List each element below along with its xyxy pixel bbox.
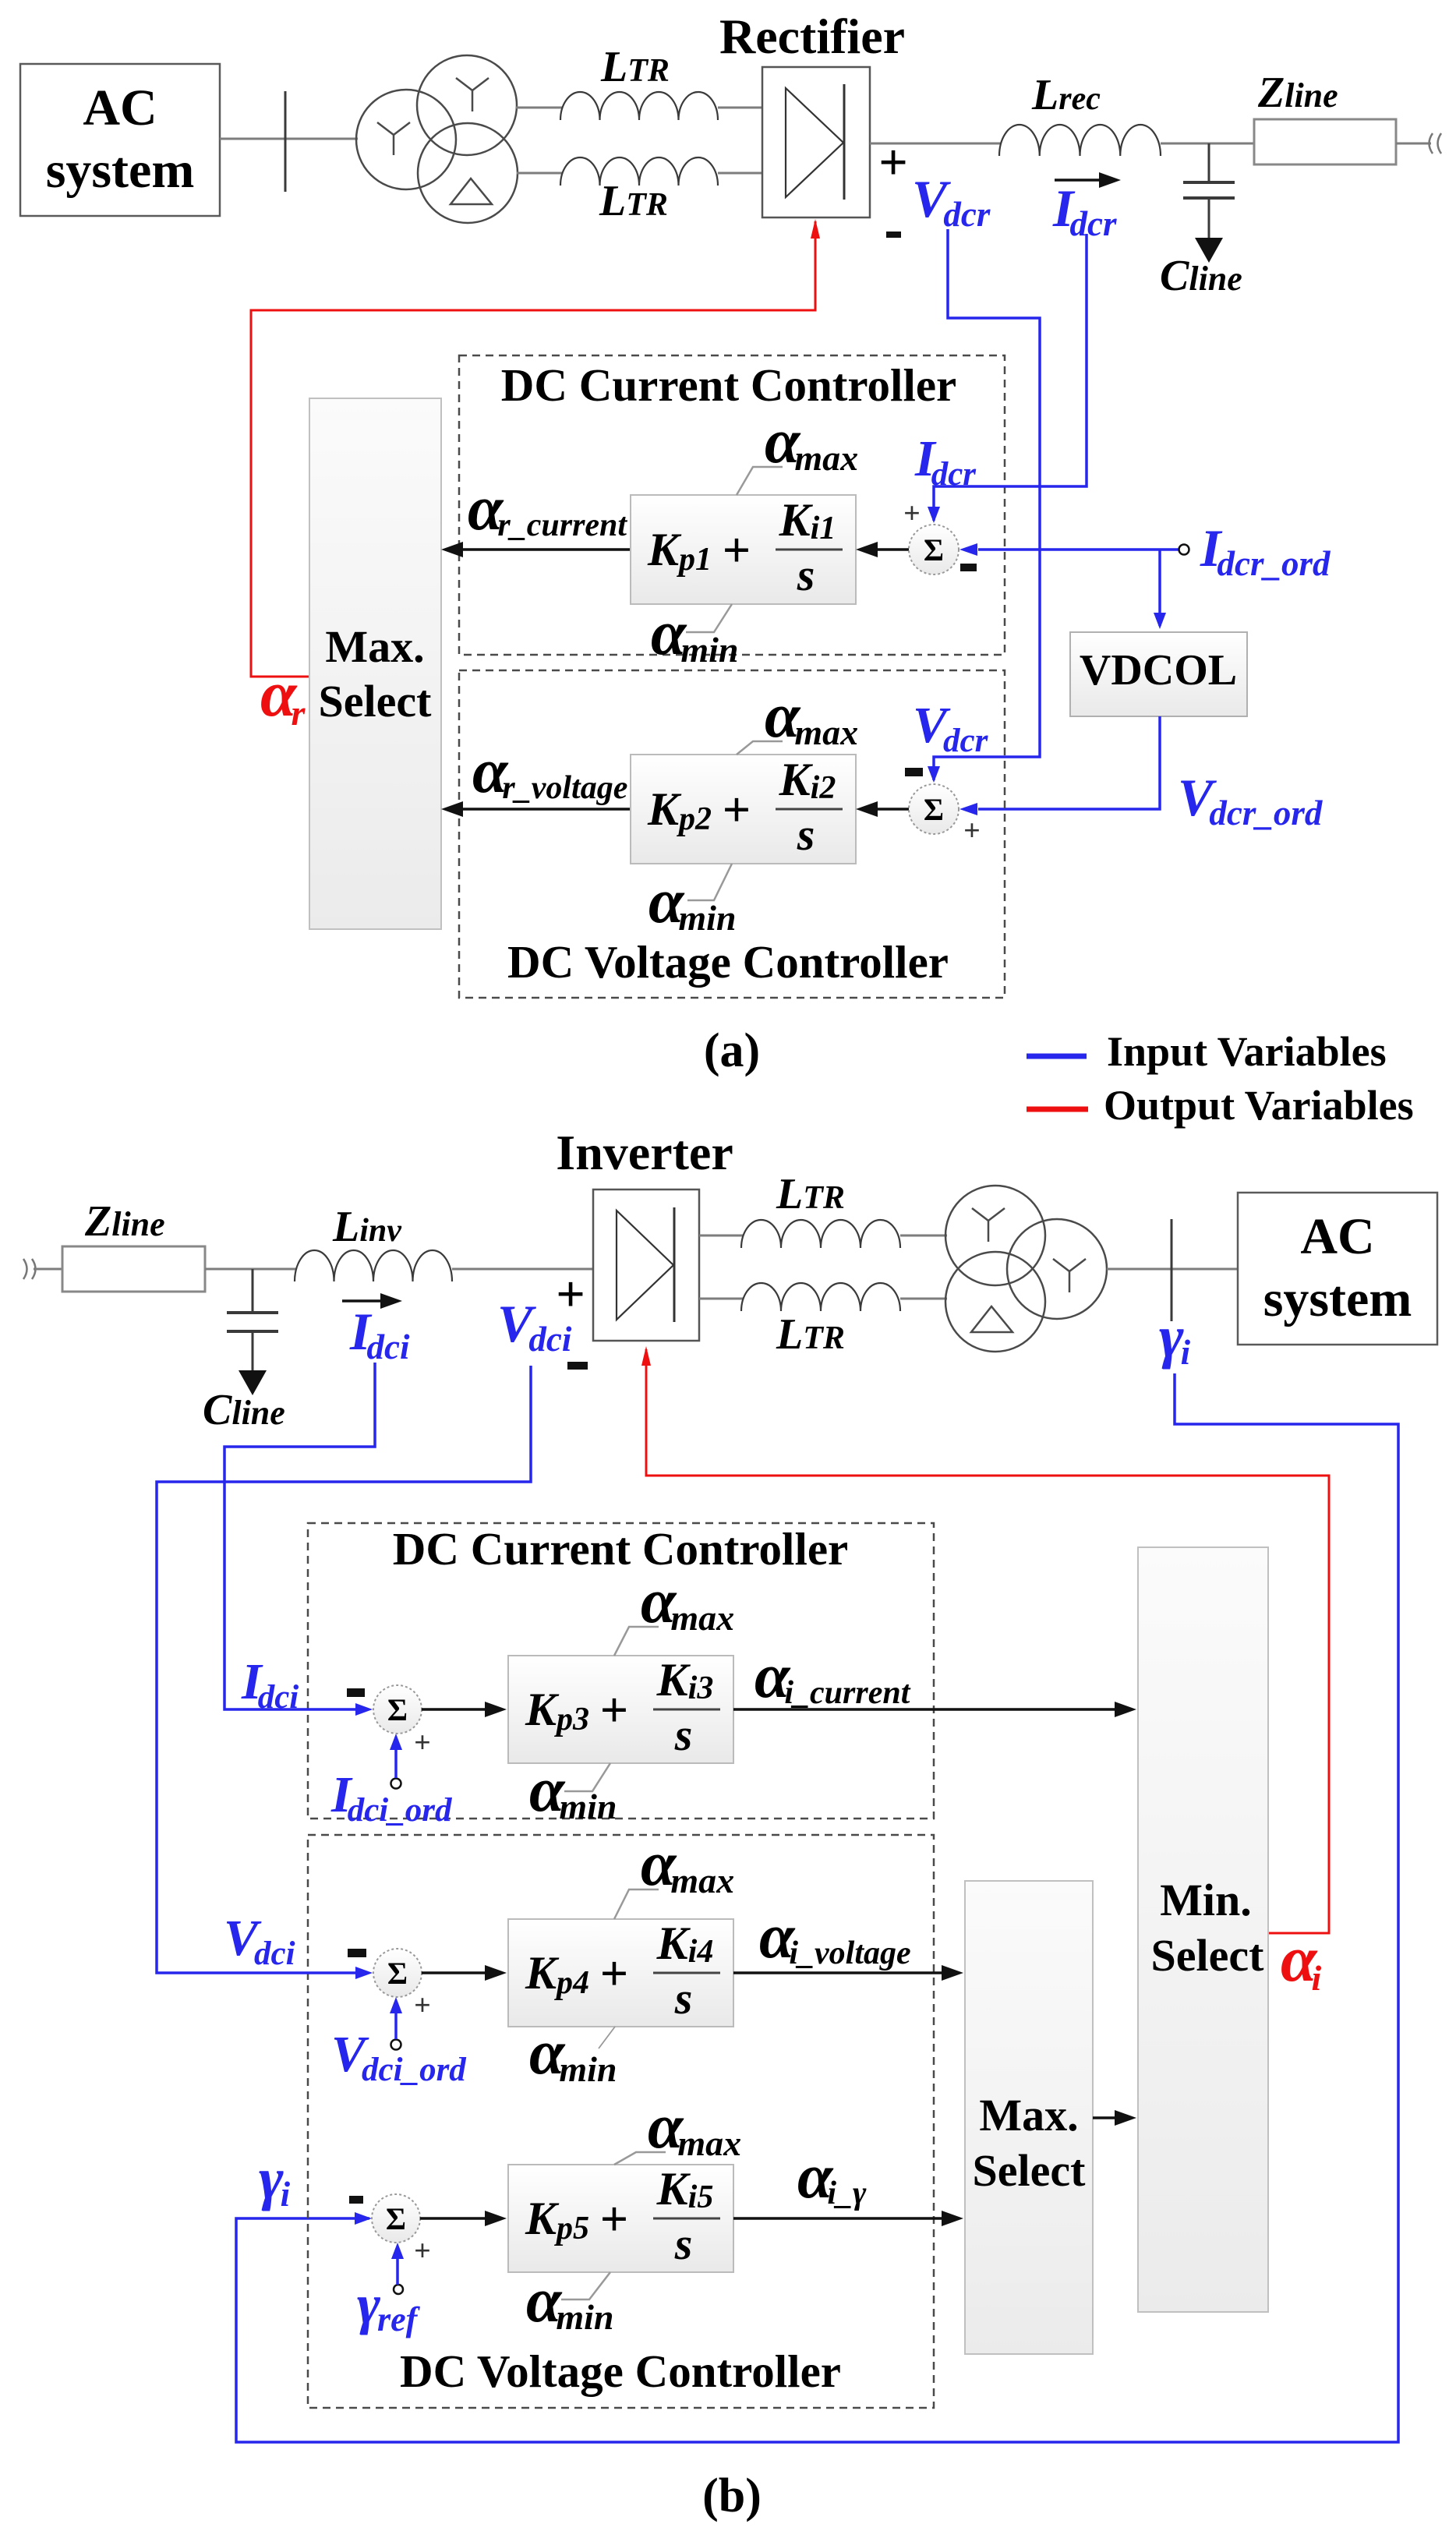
legend output variables — [1027, 1082, 1414, 1129]
svg-text:Idci_ord: Idci_ord — [330, 1766, 453, 1829]
svg-text:DC Voltage Controller: DC Voltage Controller — [400, 2345, 841, 2397]
alpha_min limit (Kp3) — [529, 1754, 617, 1826]
svg-text:γref: γref — [357, 2273, 421, 2338]
svg-text:Σ: Σ — [387, 1692, 408, 1727]
transformer T2 (three winding) — [945, 1186, 1107, 1352]
svg-text:αmin: αmin — [526, 2264, 614, 2337]
svg-text:Linv: Linv — [332, 1203, 402, 1251]
Idcr current arrow — [1055, 172, 1121, 188]
inductor LTR bottom (inverter) — [741, 1283, 900, 1311]
svg-text:αmax: αmax — [641, 1828, 734, 1900]
wire alpha_r output (red, Max Select to rectifier) — [251, 219, 820, 677]
svg-text:αmax: αmax — [765, 405, 858, 478]
AC system box (inverter side) — [1238, 1193, 1437, 1345]
summer Sigma4 — [348, 1949, 431, 2022]
node Idcr_ord terminal — [1179, 518, 1331, 583]
svg-text:αi_current: αi_current — [755, 1640, 911, 1711]
svg-text:+: + — [600, 1682, 628, 1737]
svg-text:αmax: αmax — [648, 2091, 741, 2163]
svg-text:system: system — [46, 142, 195, 199]
Max Select block (inverter) — [965, 1881, 1093, 2354]
minus label Vdcr — [886, 232, 901, 238]
line break symbol (inverter side) — [23, 1259, 36, 1279]
wire alpha_i_gamma (Kp5 to Max Select) — [733, 2140, 963, 2226]
alpha_max limit (Kp2) — [737, 680, 858, 755]
VDCOL block — [1070, 632, 1247, 716]
svg-text:αmax: αmax — [765, 680, 858, 752]
svg-text:+: + — [414, 1727, 431, 1759]
summer Sigma2 — [905, 768, 981, 847]
svg-text:Rectifier: Rectifier — [719, 9, 905, 64]
svg-text:+: + — [963, 815, 981, 847]
bus bar (inverter) — [1171, 1219, 1173, 1321]
DC Voltage Controller dashed box (inverter) — [308, 1835, 934, 2408]
alpha_max limit (Kp1) — [737, 405, 858, 495]
wire Max Select to Min Select — [1093, 2110, 1136, 2126]
svg-text:+: + — [600, 2191, 628, 2246]
svg-text:Vdci_ord: Vdci_ord — [331, 2026, 467, 2088]
svg-text:Σ: Σ — [924, 532, 944, 567]
svg-text:αr: αr — [260, 658, 306, 733]
wire transformer to LTR bottom — [517, 172, 562, 175]
wire transformer to bus (inverter) — [1107, 1268, 1239, 1271]
wire Lrec to Zline — [1161, 143, 1255, 145]
svg-text:VDCOL: VDCOL — [1080, 646, 1237, 695]
svg-text:αmin: αmin — [651, 597, 739, 670]
inductor LTR top (inverter) — [741, 1220, 900, 1248]
wire Idcr_ord to VDCOL (blue) — [1154, 550, 1166, 629]
wire alpha_i_voltage (Kp4 to Max Select) — [733, 1900, 963, 1981]
svg-text:LTR: LTR — [600, 43, 670, 91]
wire Sigma1 to Kp1 — [856, 542, 909, 557]
wire LTR bottom to rectifier — [718, 172, 762, 175]
svg-text:AC: AC — [83, 80, 157, 136]
svg-text:Inverter: Inverter — [556, 1125, 733, 1180]
wire inverter to LTR bottom — [699, 1298, 743, 1300]
svg-text:LTR: LTR — [776, 1170, 845, 1218]
wire LTR bottom to transformer — [900, 1298, 947, 1300]
svg-text:Min.: Min. — [1160, 1875, 1252, 1925]
wire AC system to transformer — [220, 138, 358, 140]
svg-text:(a): (a) — [704, 1024, 760, 1077]
svg-text:Idcr: Idcr — [1052, 179, 1117, 243]
inductor Lrec — [999, 125, 1161, 156]
node Idci_ord terminal — [330, 1734, 453, 1829]
svg-text:Vdcr: Vdcr — [912, 169, 991, 234]
wire break to Zline (inverter) — [34, 1268, 64, 1271]
svg-text:s: s — [797, 809, 815, 860]
svg-text:s: s — [674, 2218, 693, 2269]
svg-text:DC Current Controller: DC Current Controller — [393, 1523, 848, 1575]
svg-text:Select: Select — [319, 676, 433, 726]
svg-text:αmin: αmin — [529, 1754, 617, 1826]
svg-text:s: s — [674, 1709, 693, 1760]
PI block Kp5 — [508, 2163, 733, 2272]
alpha_min limit (Kp5) — [526, 2264, 614, 2337]
rectifier U1 — [719, 9, 905, 217]
wire Sigma4 to Kp4 — [422, 1965, 507, 1981]
PI block Kp2 — [631, 754, 856, 864]
DC Current Controller dashed box (inverter) — [308, 1523, 934, 1819]
wire gamma_i measurement (blue) — [236, 1373, 1398, 2442]
impedance Zline (inverter side) — [62, 1197, 205, 1292]
svg-text:αi_γ: αi_γ — [797, 2140, 867, 2211]
wire LTR top to transformer — [900, 1235, 947, 1237]
alpha_min limit (Kp2) — [648, 864, 737, 938]
wire Idcr measurement into Sigma1 (blue) — [914, 234, 1087, 523]
svg-text:αmin: αmin — [648, 865, 737, 938]
svg-text:Σ: Σ — [386, 2201, 406, 2236]
summer Sigma3 — [347, 1685, 431, 1759]
PI block Kp1 — [631, 494, 856, 604]
svg-text:+: + — [600, 1946, 628, 2001]
DC Current Controller dashed box (rectifier) — [459, 355, 1005, 655]
svg-text:γi: γi — [1159, 1304, 1191, 1372]
Max Select block (rectifier) — [309, 398, 441, 929]
svg-text:Cline: Cline — [203, 1386, 285, 1434]
capacitor Cline (inverter side) — [203, 1269, 285, 1434]
svg-text:DC Current Controller: DC Current Controller — [501, 359, 956, 411]
summer Sigma1 — [903, 497, 977, 574]
svg-text:+: + — [723, 782, 751, 837]
wire VDCOL to Sigma2 (blue) — [959, 716, 1323, 832]
Min Select block (inverter) — [1138, 1547, 1268, 2312]
svg-text:+: + — [556, 1266, 585, 1323]
svg-text:Select: Select — [973, 2145, 1087, 2196]
minus label Vdci — [567, 1362, 588, 1370]
wire alpha_r_voltage (Kp2 to Max Select) — [441, 735, 631, 817]
svg-text:+: + — [414, 1989, 431, 2022]
PI block Kp3 — [508, 1654, 733, 1763]
svg-text:Idcr: Idcr — [914, 430, 977, 493]
svg-text:αmax: αmax — [641, 1565, 734, 1638]
svg-text:AC: AC — [1300, 1208, 1374, 1265]
wire alpha_r_current (Kp1 to Max Select) — [441, 472, 631, 557]
alpha_max limit (Kp3) — [614, 1565, 734, 1656]
impedance Zline (rectifier side) — [1254, 69, 1396, 164]
AC system box (rectifier side) — [20, 64, 220, 216]
svg-text:Max.: Max. — [979, 2090, 1078, 2140]
svg-text:Max.: Max. — [325, 621, 424, 672]
svg-text:DC Voltage Controller: DC Voltage Controller — [507, 936, 949, 988]
svg-text:Zline: Zline — [84, 1197, 165, 1246]
summer Sigma5 — [349, 2194, 431, 2268]
svg-text:αi: αi — [1281, 1923, 1321, 1998]
wire Zline to Linv — [205, 1268, 296, 1271]
wire Idcr_ord into Sigma1 (blue) — [959, 543, 1179, 556]
legend input variables — [1027, 1028, 1387, 1075]
svg-text:(b): (b) — [702, 2469, 762, 2522]
wire transformer to LTR top — [516, 107, 562, 109]
wire Sigma3 to Kp3 — [422, 1702, 507, 1717]
svg-text:αi_voltage: αi_voltage — [759, 1900, 911, 1971]
svg-text:Input Variables: Input Variables — [1107, 1028, 1387, 1075]
node Vdci_ord terminal — [331, 1997, 467, 2088]
node gamma_ref terminal — [357, 2243, 421, 2338]
Idci current arrow — [342, 1293, 402, 1309]
alpha_min limit (Kp4) — [529, 2017, 617, 2089]
alpha_max limit (Kp5) — [614, 2091, 741, 2165]
wire rectifier to Lrec — [870, 143, 1001, 145]
wire Zline to line break — [1396, 143, 1431, 145]
wire Vdci measurement into Sigma4 (blue) — [157, 1366, 531, 1979]
svg-text:Vdci: Vdci — [224, 1910, 295, 1972]
svg-text:s: s — [797, 550, 815, 600]
wire Sigma2 to Kp2 — [856, 801, 909, 817]
transformer T1 (three winding) — [356, 55, 518, 223]
inductor LTR top (rectifier) — [560, 92, 718, 120]
svg-text:Vdcr: Vdcr — [913, 697, 989, 759]
DC Voltage Controller dashed box (rectifier) — [459, 670, 1005, 998]
wire Linv to inverter — [452, 1268, 593, 1271]
svg-text:Select: Select — [1151, 1930, 1265, 1981]
svg-text:Output Variables: Output Variables — [1104, 1082, 1414, 1129]
capacitor Cline (rectifier side) — [1160, 143, 1242, 300]
alpha_max limit (Kp4) — [614, 1828, 734, 1919]
alpha_min limit (Kp1) — [651, 597, 739, 670]
svg-text:γi: γi — [259, 2146, 291, 2214]
svg-text:Σ: Σ — [387, 1956, 408, 1991]
bus bar — [284, 91, 287, 192]
svg-text:Cline: Cline — [1160, 252, 1242, 300]
wire LTR top to rectifier — [718, 107, 762, 109]
svg-text:Idci: Idci — [241, 1653, 299, 1716]
svg-text:s: s — [674, 1973, 693, 2024]
svg-text:Vdcr_ord: Vdcr_ord — [1178, 768, 1323, 832]
svg-text:LTR: LTR — [776, 1310, 845, 1359]
svg-text:LTR: LTR — [599, 177, 668, 225]
svg-text:+: + — [878, 134, 908, 191]
svg-text:Σ: Σ — [924, 792, 944, 827]
wire alpha_i output (red, Min Select to inverter) — [641, 1346, 1329, 1933]
wire inverter to LTR top — [699, 1235, 743, 1237]
wire Vdcr measurement into Sigma2 (blue) — [913, 229, 1040, 783]
PI block Kp4 — [508, 1918, 733, 2027]
svg-text:+: + — [723, 522, 751, 578]
inductor LTR bottom (rectifier) — [560, 157, 718, 186]
wire Sigma5 to Kp5 — [420, 2211, 507, 2226]
svg-text:αr_voltage: αr_voltage — [472, 735, 627, 806]
line break symbol — [1429, 133, 1442, 154]
svg-text:Zline: Zline — [1257, 69, 1338, 117]
svg-text:Idci: Idci — [349, 1302, 410, 1366]
svg-text:system: system — [1263, 1271, 1412, 1327]
svg-text:Lrec: Lrec — [1031, 71, 1101, 119]
svg-text:αr_current: αr_current — [468, 472, 627, 543]
wire alpha_i_current (Kp3 to Min Select) — [733, 1640, 1136, 1717]
svg-text:+: + — [414, 2235, 431, 2268]
svg-text:Idcr_ord: Idcr_ord — [1200, 518, 1331, 583]
svg-text:+: + — [903, 497, 921, 530]
inverter U2 — [556, 1125, 733, 1341]
inductor Linv — [295, 1250, 452, 1281]
wire Idci measurement into Sigma3 (blue) — [224, 1363, 375, 1716]
